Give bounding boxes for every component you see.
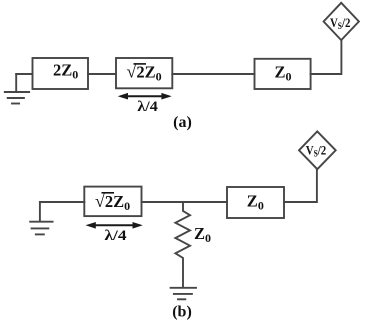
value label sqrt(2)Z0 (a) — [127, 62, 162, 84]
wire GND-B to sqrt2Z0 (b) — [40, 201, 84, 203]
svg-text:λ/4: λ/4 — [105, 228, 128, 244]
svg-text:Z0: Z0 — [275, 62, 292, 83]
wire sqrt2Z0 to Z0 (b) — [142, 201, 228, 203]
quarter-wave section sqrt(2)Z0 (b) — [84, 187, 141, 217]
svg-text:Z0: Z0 — [247, 191, 264, 212]
dimension arrow lambda/4 (b) — [86, 222, 143, 229]
wire GND-A to 2Z0 — [16, 73, 32, 75]
svg-text:VS/2: VS/2 — [306, 142, 327, 158]
svg-text:2Z0: 2Z0 — [53, 60, 78, 81]
ground GND-A — [5, 74, 29, 104]
wire sqrt2Z0 to Z0 (a) — [172, 73, 254, 75]
ground GND-B bottom — [171, 288, 196, 300]
source VS/2 diamond (a) — [324, 3, 359, 40]
resistor Z0 shunt (b) — [175, 202, 190, 288]
quarter-wave section sqrt(2)Z0 (a) — [116, 58, 172, 88]
wire Z0 to source (a) — [311, 40, 342, 74]
transmission line section Z0 (b) — [227, 187, 284, 218]
transmission line section 2Z0 (a) — [33, 58, 89, 89]
ground GND-B left — [30, 202, 52, 234]
svg-text:√2Z0: √2Z0 — [95, 191, 130, 213]
svg-text:√2Z0: √2Z0 — [127, 62, 162, 84]
svg-text:(a): (a) — [173, 114, 192, 131]
svg-text:(b): (b) — [172, 304, 192, 321]
transmission line section Z0 (a) — [255, 59, 311, 89]
svg-text:λ/4: λ/4 — [137, 99, 158, 115]
wire Z0 to source (b) — [284, 169, 317, 202]
value label sqrt(2)Z0 (b) — [95, 191, 130, 213]
dimension arrow lambda/4 (a) — [118, 93, 172, 100]
svg-text:Z0: Z0 — [194, 224, 211, 245]
source VS/2 diamond (b) — [299, 131, 336, 169]
svg-text:VS/2: VS/2 — [330, 15, 351, 31]
wire 2Z0 to sqrt2Z0 (a) — [88, 73, 116, 75]
